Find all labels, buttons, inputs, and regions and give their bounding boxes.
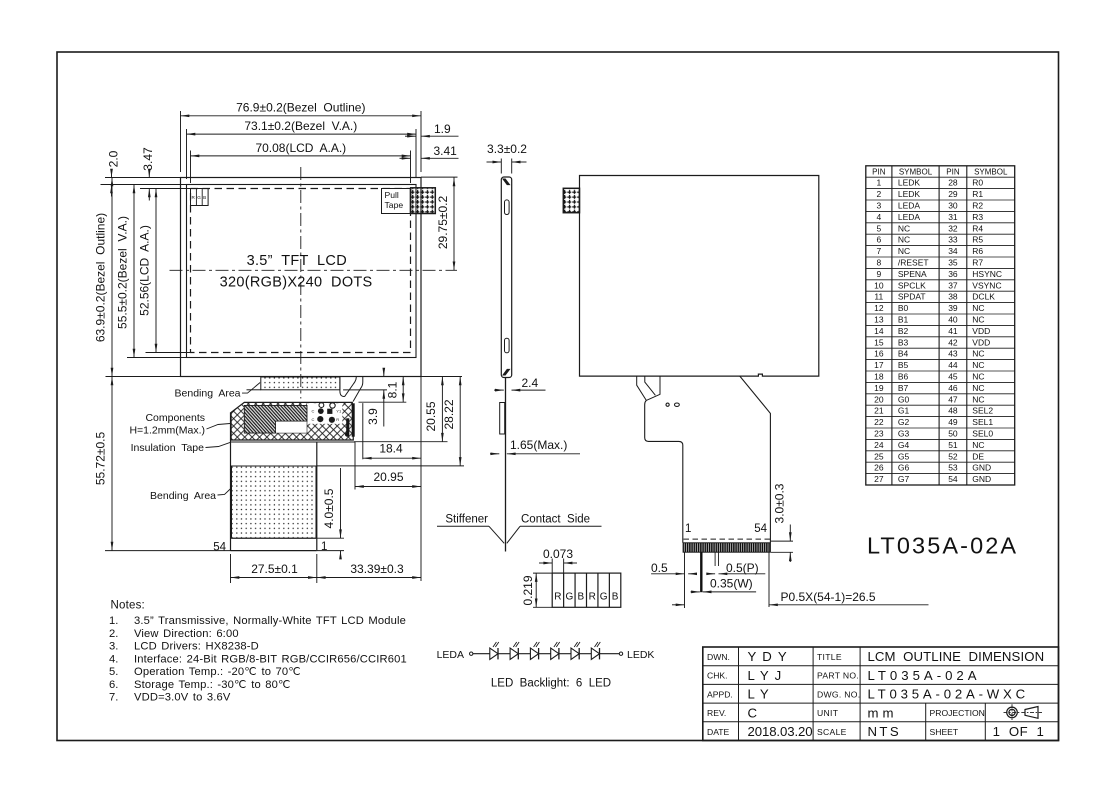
svg-text:NC: NC [972, 394, 984, 404]
svg-text:B2: B2 [898, 326, 909, 336]
svg-text:29: 29 [948, 189, 958, 199]
svg-text:R: R [589, 592, 596, 603]
svg-text:LEDA: LEDA [898, 212, 921, 222]
svg-text:Storage Temp.: -30℃ to 80℃: Storage Temp.: -30℃ to 80℃ [134, 679, 291, 691]
svg-text:2.4: 2.4 [522, 376, 539, 390]
svg-text:3.: 3. [109, 641, 118, 653]
svg-text:LED Backlight: 6 LED: LED Backlight: 6 LED [491, 678, 611, 690]
svg-text:NTS: NTS [868, 724, 902, 739]
svg-text:4: 4 [876, 212, 881, 222]
svg-text:0.073: 0.073 [543, 547, 573, 561]
svg-text:20.55: 20.55 [424, 401, 438, 431]
svg-text:32: 32 [948, 223, 958, 233]
svg-text:Contact Side: Contact Side [521, 514, 590, 526]
svg-text:1.9: 1.9 [434, 122, 451, 136]
svg-text:NC: NC [898, 223, 910, 233]
svg-text:27.5±0.1: 27.5±0.1 [251, 562, 298, 576]
svg-text:UNIT: UNIT [817, 708, 839, 718]
svg-text:3.5” Transmissive, Normally-Wh: 3.5” Transmissive, Normally-White TFT LC… [134, 615, 406, 627]
svg-text:NC: NC [972, 372, 984, 382]
svg-text:15: 15 [874, 337, 884, 347]
svg-text:18.4: 18.4 [379, 442, 403, 456]
svg-text:G0: G0 [898, 394, 910, 404]
svg-text:34: 34 [948, 246, 958, 256]
svg-text:R5: R5 [972, 235, 983, 245]
svg-text:21: 21 [874, 406, 884, 416]
svg-text:LEDA: LEDA [437, 649, 464, 661]
svg-text:43: 43 [948, 349, 958, 359]
svg-text:R: R [554, 592, 561, 603]
svg-text:0.5(P): 0.5(P) [726, 561, 759, 575]
svg-text:R3: R3 [972, 212, 983, 222]
svg-text:G: G [600, 592, 608, 603]
svg-text:LEDA: LEDA [898, 201, 921, 211]
svg-text:33.39±0.3: 33.39±0.3 [350, 562, 404, 576]
svg-text:28: 28 [948, 178, 958, 188]
svg-text:41: 41 [948, 326, 958, 336]
svg-text:Operation Temp.: -20℃ to 70℃: Operation Temp.: -20℃ to 70℃ [134, 666, 301, 678]
svg-text:SYMBOL: SYMBOL [899, 167, 933, 176]
svg-text:View Direction: 6:00: View Direction: 6:00 [134, 628, 239, 640]
svg-text:2: 2 [876, 189, 881, 199]
svg-text:SHEET: SHEET [930, 727, 959, 737]
svg-text:PIN: PIN [946, 167, 960, 176]
svg-text:R4: R4 [972, 223, 983, 233]
svg-text:NC: NC [972, 303, 984, 313]
svg-text:Tape: Tape [385, 200, 404, 210]
svg-text:1: 1 [685, 523, 691, 535]
svg-text:G4: G4 [898, 440, 910, 450]
svg-text:Y1: Y1 [336, 409, 342, 414]
svg-text:G: G [565, 592, 573, 603]
svg-text:R0: R0 [972, 178, 983, 188]
svg-text:1: 1 [321, 541, 327, 553]
svg-text:G7: G7 [898, 474, 910, 484]
svg-text:SEL0: SEL0 [972, 429, 993, 439]
svg-text:2.: 2. [109, 628, 118, 640]
svg-text:R: R [336, 417, 339, 422]
svg-text:54: 54 [948, 474, 958, 484]
svg-text:SPCLK: SPCLK [898, 280, 926, 290]
svg-text:NC: NC [898, 235, 910, 245]
svg-text:10: 10 [874, 280, 884, 290]
svg-text:LY: LY [748, 687, 775, 702]
svg-text:LT035A-02A-WXC: LT035A-02A-WXC [868, 687, 1029, 702]
svg-text:VSYNC: VSYNC [972, 280, 1001, 290]
svg-text:YDY: YDY [748, 649, 793, 664]
svg-text:Notes:: Notes: [111, 600, 145, 612]
svg-text:LCD Drivers: HX8238-D: LCD Drivers: HX8238-D [134, 641, 259, 653]
svg-text:SPDAT: SPDAT [898, 292, 926, 302]
svg-text:27: 27 [874, 474, 884, 484]
svg-text:Stiffener: Stiffener [445, 514, 488, 526]
svg-text:9: 9 [876, 269, 881, 279]
svg-text:73.1±0.2(Bezel V.A.): 73.1±0.2(Bezel V.A.) [244, 119, 357, 133]
svg-text:CHK.: CHK. [707, 671, 728, 681]
svg-text:8.1: 8.1 [386, 381, 400, 398]
svg-text:20.95: 20.95 [373, 470, 403, 484]
svg-text:23: 23 [874, 429, 884, 439]
svg-text:REV.: REV. [707, 708, 726, 718]
svg-text:3.5” TFT LCD: 3.5” TFT LCD [247, 253, 347, 269]
svg-text:1 OF 1: 1 OF 1 [993, 724, 1045, 739]
svg-text:TITLE: TITLE [817, 652, 842, 662]
svg-text:APPD.: APPD. [707, 689, 733, 699]
svg-text:40: 40 [948, 315, 958, 325]
svg-text:13: 13 [874, 315, 884, 325]
svg-text:76.9±0.2(Bezel Outline): 76.9±0.2(Bezel Outline) [236, 101, 365, 115]
svg-text:/RESET: /RESET [898, 258, 929, 268]
svg-text:mm: mm [868, 705, 898, 720]
svg-text:26: 26 [874, 463, 884, 473]
svg-text:C: C [312, 409, 315, 414]
svg-text:GND: GND [972, 463, 991, 473]
svg-text:R6: R6 [972, 246, 983, 256]
svg-text:HSYNC: HSYNC [972, 269, 1002, 279]
svg-text:28.22: 28.22 [442, 399, 456, 429]
svg-text:G2: G2 [898, 417, 910, 427]
svg-text:7: 7 [876, 246, 881, 256]
svg-text:Pull: Pull [385, 190, 399, 200]
svg-text:24: 24 [874, 440, 884, 450]
svg-text:LEDK: LEDK [627, 649, 654, 661]
svg-text:2018.03.20: 2018.03.20 [748, 724, 813, 739]
svg-text:20: 20 [874, 394, 884, 404]
svg-text:SYMBOL: SYMBOL [974, 167, 1008, 176]
svg-text:63.9±0.2(Bezel Outline): 63.9±0.2(Bezel Outline) [94, 213, 108, 342]
svg-text:1.65(Max.): 1.65(Max.) [510, 438, 567, 452]
svg-text:18: 18 [874, 372, 884, 382]
svg-text:47: 47 [948, 394, 958, 404]
svg-text:B7: B7 [898, 383, 909, 393]
svg-text:37: 37 [948, 280, 958, 290]
svg-text:6: 6 [876, 235, 881, 245]
svg-text:P0.5X(54-1)=26.5: P0.5X(54-1)=26.5 [781, 590, 876, 604]
svg-text:52: 52 [948, 451, 958, 461]
svg-text:25: 25 [874, 451, 884, 461]
svg-text:4.0±0.5: 4.0±0.5 [322, 488, 336, 528]
svg-text:Interface: 24-Bit RGB/8-BIT RG: Interface: 24-Bit RGB/8-BIT RGB/CCIR656/… [134, 653, 407, 665]
svg-text:49: 49 [948, 417, 958, 427]
svg-text:29.75±0.2: 29.75±0.2 [436, 196, 450, 250]
svg-text:G1: G1 [898, 406, 910, 416]
svg-text:R1: R1 [972, 189, 983, 199]
svg-text:19: 19 [874, 383, 884, 393]
svg-text:NC: NC [898, 246, 910, 256]
svg-text:48: 48 [948, 406, 958, 416]
svg-text:PART NO.: PART NO. [817, 671, 859, 681]
svg-text:DCLK: DCLK [972, 292, 995, 302]
svg-text:3.0±0.3: 3.0±0.3 [773, 483, 787, 523]
svg-text:38: 38 [948, 292, 958, 302]
svg-text:39: 39 [948, 303, 958, 313]
svg-text:LEDK: LEDK [898, 178, 921, 188]
svg-text:PIN: PIN [872, 167, 886, 176]
svg-text:2.0: 2.0 [107, 150, 121, 167]
svg-text:H=1.2mm(Max.): H=1.2mm(Max.) [129, 425, 205, 437]
svg-text:31: 31 [948, 212, 958, 222]
svg-text:54: 54 [754, 523, 767, 535]
svg-text:GND: GND [972, 474, 991, 484]
svg-text:VDD: VDD [972, 337, 990, 347]
svg-text:70.08(LCD A.A.): 70.08(LCD A.A.) [255, 141, 346, 155]
svg-text:7.: 7. [109, 692, 118, 704]
svg-text:35: 35 [948, 258, 958, 268]
svg-text:R7: R7 [972, 258, 983, 268]
svg-text:22: 22 [874, 417, 884, 427]
svg-text:52.56(LCD A.A.): 52.56(LCD A.A.) [138, 225, 152, 316]
svg-text:51: 51 [948, 440, 958, 450]
svg-text:Components: Components [145, 412, 205, 424]
svg-text:30: 30 [948, 201, 958, 211]
svg-text:VDD=3.0V to 3.6V: VDD=3.0V to 3.6V [134, 692, 231, 704]
svg-text:C: C [312, 417, 315, 422]
svg-text:Insulation Tape: Insulation Tape [131, 442, 205, 454]
svg-text:Bending Area: Bending Area [150, 490, 216, 502]
svg-text:SEL2: SEL2 [972, 406, 993, 416]
svg-text:55.72±0.5: 55.72±0.5 [94, 432, 108, 486]
svg-text:0.5: 0.5 [651, 561, 668, 575]
svg-text:NC: NC [972, 440, 984, 450]
svg-text:B1: B1 [898, 315, 909, 325]
svg-text:16: 16 [874, 349, 884, 359]
svg-text:SEL1: SEL1 [972, 417, 993, 427]
svg-text:B3: B3 [898, 337, 909, 347]
svg-text:Bending Area: Bending Area [175, 388, 241, 400]
svg-text:53: 53 [948, 463, 958, 473]
svg-text:3.47: 3.47 [141, 147, 155, 171]
svg-text:5: 5 [876, 223, 881, 233]
svg-text:3: 3 [876, 201, 881, 211]
svg-text:3.41: 3.41 [434, 144, 458, 158]
svg-text:12: 12 [874, 303, 884, 313]
svg-text:3.9: 3.9 [366, 408, 380, 425]
svg-text:1.: 1. [109, 615, 118, 627]
svg-text:B5: B5 [898, 360, 909, 370]
svg-text:B: B [612, 592, 619, 603]
svg-text:54: 54 [213, 542, 226, 554]
svg-text:8: 8 [876, 258, 881, 268]
svg-text:G3: G3 [898, 429, 910, 439]
svg-text:DE: DE [972, 451, 984, 461]
svg-text:36: 36 [948, 269, 958, 279]
svg-text:LCM OUTLINE DIMENSION: LCM OUTLINE DIMENSION [868, 649, 1045, 664]
svg-text:6.: 6. [109, 679, 118, 691]
svg-text:G: G [197, 195, 201, 200]
svg-text:B6: B6 [898, 372, 909, 382]
svg-text:5.: 5. [109, 666, 118, 678]
svg-text:42: 42 [948, 337, 958, 347]
svg-text:SCALE: SCALE [817, 727, 847, 737]
svg-text:1: 1 [876, 178, 881, 188]
svg-text:17: 17 [874, 360, 884, 370]
svg-text:B0: B0 [898, 303, 909, 313]
svg-text:LEDK: LEDK [898, 189, 921, 199]
svg-text:PROJECTION: PROJECTION [930, 708, 985, 718]
svg-text:DATE: DATE [707, 727, 730, 737]
svg-text:50: 50 [948, 429, 958, 439]
svg-text:R2: R2 [972, 201, 983, 211]
svg-text:55.5±0.2(Bezel V.A.): 55.5±0.2(Bezel V.A.) [116, 216, 130, 329]
svg-text:B4: B4 [898, 349, 909, 359]
svg-text:14: 14 [874, 326, 884, 336]
svg-text:NC: NC [972, 383, 984, 393]
svg-text:46: 46 [948, 383, 958, 393]
svg-text:G5: G5 [898, 451, 910, 461]
svg-text:NC: NC [972, 349, 984, 359]
svg-text:NC: NC [972, 360, 984, 370]
svg-text:B: B [577, 592, 584, 603]
svg-text:LT035A-02A: LT035A-02A [868, 668, 981, 683]
svg-text:0.219: 0.219 [521, 575, 535, 605]
svg-text:320(RGB)X240 DOTS: 320(RGB)X240 DOTS [220, 275, 373, 291]
svg-text:45: 45 [948, 372, 958, 382]
svg-text:11: 11 [874, 292, 883, 302]
svg-text:G6: G6 [898, 463, 910, 473]
svg-text:VDD: VDD [972, 326, 990, 336]
svg-text:0.35(W): 0.35(W) [710, 577, 753, 591]
svg-text:33: 33 [948, 235, 958, 245]
svg-text:B: B [203, 195, 206, 200]
svg-text:DWG. NO.: DWG. NO. [817, 689, 860, 699]
svg-text:SPENA: SPENA [898, 269, 927, 279]
svg-text:LT035A-02A: LT035A-02A [867, 533, 1018, 559]
svg-text:DWN.: DWN. [707, 652, 730, 662]
svg-text:NC: NC [972, 315, 984, 325]
svg-text:4.: 4. [109, 653, 118, 665]
svg-text:C: C [748, 705, 758, 720]
svg-text:3.3±0.2: 3.3±0.2 [487, 142, 527, 156]
svg-text:44: 44 [948, 360, 958, 370]
svg-text:LYJ: LYJ [748, 668, 788, 683]
